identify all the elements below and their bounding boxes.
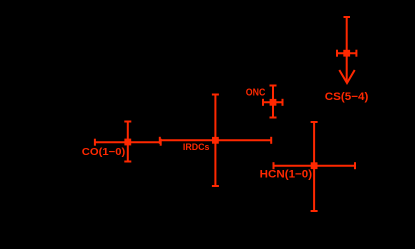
svg-text:CS(5−4): CS(5−4) — [325, 91, 369, 103]
CS(5-4) x error caps — [336, 50, 338, 57]
CO(1-0) y error bar — [127, 122, 129, 162]
HCN(1-0) y error bar — [313, 122, 315, 211]
svg-text:HCN(1−0): HCN(1−0) — [260, 169, 313, 181]
ONC y error caps — [270, 85, 277, 87]
HCN(1-0) x error caps — [273, 162, 275, 169]
ONC marker — [270, 99, 277, 106]
CS(5-4) x error bar — [337, 52, 356, 54]
CS(5-4) upper limit vertical line — [346, 17, 348, 82]
svg-text:ONC: ONC — [246, 87, 266, 98]
ONC y error bar — [272, 86, 274, 118]
ONC x error caps — [262, 99, 264, 106]
HCN(1-0) x error bar — [274, 165, 356, 167]
IRDCs x error caps — [159, 137, 161, 144]
CO(1-0) y error caps — [124, 121, 131, 123]
IRDCs marker — [212, 137, 219, 144]
CS(5-4) top cap — [344, 16, 351, 18]
CO(1-0) marker — [124, 139, 131, 146]
CS(5-4) marker — [343, 50, 350, 57]
IRDCs x error bar — [160, 139, 271, 141]
svg-text:IRDCs: IRDCs — [183, 142, 210, 153]
HCN(1-0) y error caps — [311, 121, 318, 123]
ONC x error bar — [263, 101, 283, 103]
IRDCs y error bar — [214, 95, 216, 187]
HCN(1-0) marker — [311, 162, 318, 169]
CO(1-0) x error caps — [94, 139, 96, 146]
IRDCs y error caps — [212, 94, 219, 96]
CO(1-0) x error bar — [95, 141, 161, 143]
CS(5-4) down arrowhead — [339, 70, 354, 83]
svg-text:CO(1−0): CO(1−0) — [82, 147, 125, 158]
